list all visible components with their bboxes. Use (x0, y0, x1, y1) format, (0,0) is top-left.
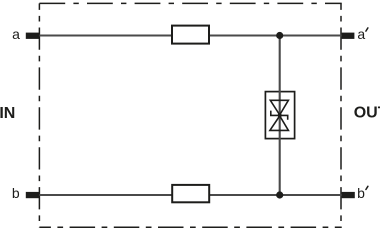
enclosure dashed frame: top border (39, 2, 341, 4)
prime mark of b' (366, 186, 368, 189)
svg-text:a: a (357, 26, 365, 42)
junction blob at diode apex (278, 113, 282, 117)
terminal a (black pad) (26, 33, 40, 39)
wire: vertical branch through suppressor (279, 36, 281, 196)
suppressor diode box (component outline) (265, 92, 294, 139)
node: junction dot bottom wire (276, 191, 283, 198)
svg-text:IN: IN (0, 105, 15, 122)
suppressor diode V1: upper triangle (270, 100, 288, 115)
svg-text:b: b (357, 185, 365, 201)
suppressor diode V1: lower triangle (270, 116, 289, 130)
wire a to a' (top horizontal) (32, 34, 342, 36)
prime mark of a' (366, 28, 368, 31)
svg-text:OUT: OUT (354, 105, 380, 122)
terminal b (black pad) (26, 192, 40, 198)
resistor R1 (top decoupling impedance) (172, 26, 209, 44)
node: junction dot top wire (276, 32, 283, 39)
enclosure dashed frame: left border (38, 3, 40, 227)
terminal a' (black pad) (342, 33, 355, 39)
terminal b' (black pad) (342, 192, 355, 198)
resistor R2 (bottom decoupling impedance) (172, 185, 209, 202)
wire b to b' (bottom horizontal) (32, 194, 342, 196)
enclosure dashed frame: bottom border (39, 226, 341, 228)
suppressor diode V1: zener bar with hooks (271, 111, 288, 120)
svg-text:a: a (12, 26, 20, 42)
svg-text:b: b (12, 185, 20, 201)
enclosure dashed frame: right border (340, 3, 342, 227)
